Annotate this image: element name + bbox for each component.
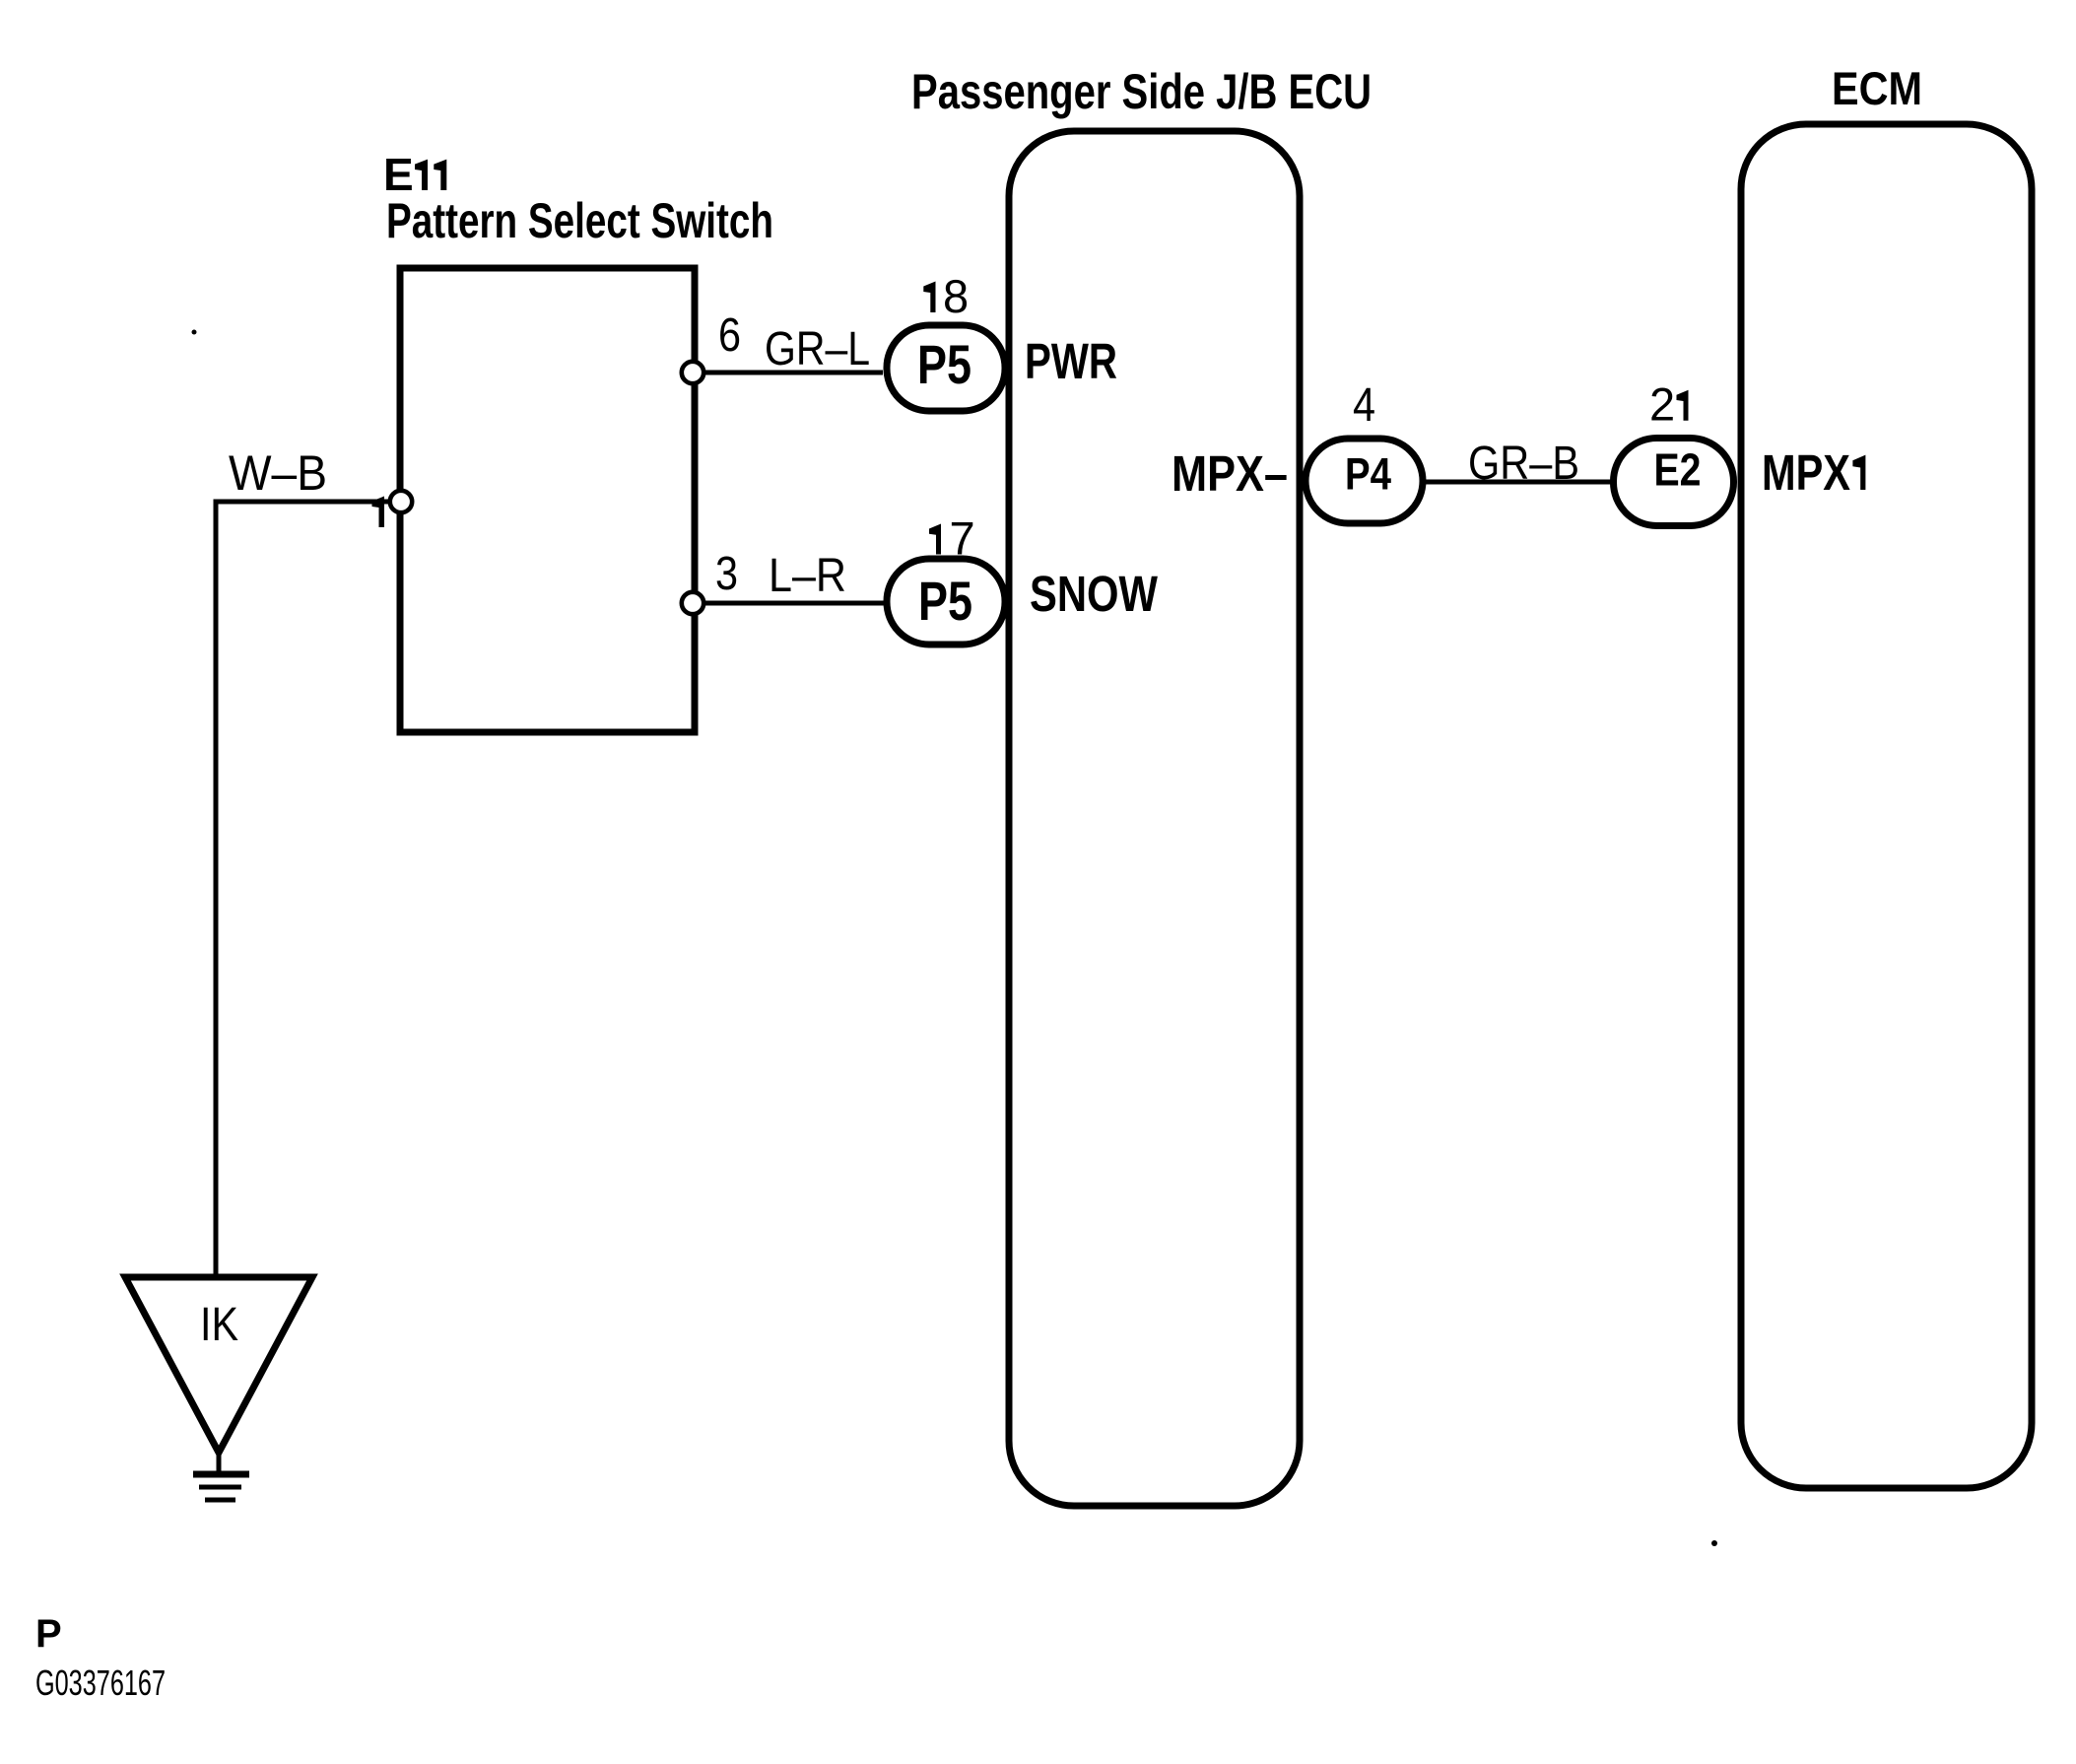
svg-text:G03376167: G03376167 [35, 1662, 166, 1703]
svg-text:PWR: PWR [1025, 333, 1117, 389]
label: pin number 18 [923, 282, 935, 313]
connector P4 pill [1306, 439, 1423, 523]
ground IK: triangle [125, 1277, 312, 1453]
svg-text:P4: P4 [1345, 449, 1391, 500]
svg-text:P: P [35, 1612, 62, 1656]
connector P5 (pin 18) pill [887, 325, 1005, 411]
svg-text:2: 2 [1649, 378, 1675, 431]
svg-text:IK: IK [200, 1299, 238, 1351]
wire: W-B from ground riser to switch pin 1 [216, 502, 390, 1277]
wire: triangle apex to ground [217, 1453, 222, 1472]
label: pin number 1 [372, 497, 385, 528]
connector block U1: Passenger Side J/B ECU body [1009, 131, 1300, 1506]
svg-text:Passenger Side J/B ECU: Passenger Side J/B ECU [911, 64, 1372, 119]
connector P5 (pin 17) pill [887, 559, 1005, 645]
ground: bar 1 [193, 1471, 249, 1478]
ground: bar 2 [199, 1485, 241, 1490]
svg-text:Pattern Select Switch: Pattern Select Switch [386, 193, 773, 248]
wire: P4 to E2 (GR-B) [1423, 480, 1616, 485]
label: pin number 17 [929, 524, 941, 555]
node: switch pin 3 terminal [682, 592, 703, 614]
svg-text:8: 8 [943, 270, 969, 322]
connector E2 pill [1614, 439, 1734, 526]
svg-text:P5: P5 [917, 333, 971, 395]
switch E11: Pattern Select Switch body [400, 268, 695, 732]
svg-text:P5: P5 [918, 570, 972, 632]
svg-text:SNOW: SNOW [1030, 566, 1159, 622]
wire: switch pin 3 to connector P5 (L-R) [703, 601, 884, 606]
svg-text:4: 4 [1353, 379, 1375, 432]
svg-text:6: 6 [718, 309, 741, 362]
wire: switch pin 6 to connector P5 (GR-L) [703, 371, 883, 375]
svg-text:GR–L: GR–L [765, 323, 870, 375]
svg-text:3: 3 [715, 548, 738, 600]
svg-text:L–R: L–R [769, 550, 846, 602]
node: switch pin 1 terminal [390, 491, 412, 512]
svg-text:GR–B: GR–B [1468, 438, 1579, 490]
node: switch pin 6 terminal [682, 362, 703, 383]
svg-text:ECM: ECM [1832, 62, 1922, 114]
speck near switch [192, 330, 197, 335]
connector block U2: ECM body [1741, 124, 2032, 1488]
ground: bar 3 [205, 1498, 235, 1503]
speck near ECM bottom [1711, 1540, 1717, 1546]
svg-text:MPX–: MPX– [1172, 445, 1288, 502]
svg-text:MPX: MPX [1762, 444, 1850, 501]
svg-text:W–B: W–B [229, 445, 327, 501]
svg-text:E2: E2 [1654, 444, 1702, 496]
